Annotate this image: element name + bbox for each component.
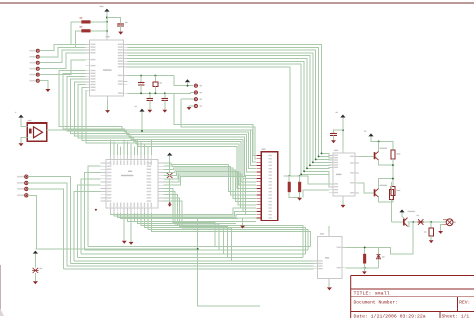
- wire R3 R4 bottoms join: [289, 192, 299, 198]
- diode D1 (DC): [377, 255, 381, 259]
- IC3 bottom pin stubs: [110, 208, 112, 213]
- wire R1 right to VCC net: [91, 21, 107, 23]
- wire Q1 base from IC5: [359, 156, 374, 158]
- junction dot rail at U-loop: [412, 221, 414, 223]
- wire R4 stem: [299, 176, 301, 182]
- wire VCC stem down to bus: [141, 112, 143, 131]
- wire JP1 pin1 to IC1 pin: [39, 45, 85, 51]
- IC1 left pin names: [91, 44, 96, 45]
- wire VCC stem: [187, 82, 189, 86]
- power VCC arrow near X2: [167, 153, 172, 156]
- wire bus IC1 to IC5 (8 nested corner lines): [127, 45, 333, 156]
- wire staircase IC3 right pins to connector rows: [164, 163, 256, 192]
- wire IC3 left pins to bottom loop bus: [88, 166, 101, 246]
- power VCC arrow above QG1: [18, 115, 23, 118]
- wire JP2 pin4 to crystal net: [28, 195, 37, 249]
- wire drops from bus into IC3 top pins: [110, 139, 112, 155]
- svg-text:TITLE: small: TITLE: small: [354, 291, 390, 297]
- junction dot on IC5 vcc line: [342, 129, 344, 131]
- IC4 bottom pin stub: [328, 279, 330, 283]
- junction dot below X2: [169, 202, 171, 204]
- wire R1 left leg down: [71, 22, 82, 45]
- wire bottom loop left segments: [88, 246, 92, 248]
- ground below IC4: [327, 287, 332, 290]
- IC4 left pin stubs: [313, 260, 317, 262]
- title block Sheet divider: [439, 311, 441, 318]
- wire J2 bottom row to ground: [243, 218, 257, 225]
- wire R5 bottom down: [392, 159, 394, 186]
- wire C4 to ground: [164, 101, 166, 110]
- capacitor C2 (vertical, between rails): [140, 76, 142, 82]
- resistor R5: [391, 150, 395, 159]
- junction dots on rail A: [140, 75, 142, 77]
- wire zener stems: [378, 247, 380, 254]
- wire IC3 right lower pins down to bottom loop: [164, 188, 216, 246]
- wire rail A from IC1 pin: [127, 75, 174, 77]
- wire R9 to ground: [430, 236, 432, 240]
- capacitor C4 at IC5: [334, 130, 343, 133]
- wire rail B from IC1 pin: [127, 92, 190, 94]
- wire bottom loop bus lower lines into IC4 left pins: [74, 260, 313, 262]
- ground below IC1: [105, 110, 110, 113]
- resistor R10: [364, 247, 366, 253]
- junction dot X1 net: [197, 248, 199, 250]
- wire Q3 base from R8: [392, 221, 404, 223]
- IC IC3 QFP box: [106, 160, 158, 208]
- IC1 right pin names: [118, 44, 123, 45]
- junction dot above R3: [288, 175, 290, 177]
- wire C3 to ground: [149, 101, 151, 110]
- wire JP1 pin2 to IC1 pin: [39, 47, 75, 57]
- connector JP2 pins (4 circle pads): [25, 175, 28, 178]
- power VCC arrow Q1 rail: [368, 133, 373, 136]
- QG1 inner square: [29, 129, 32, 134]
- junction dot on left bus: [95, 209, 97, 211]
- connector SV1 pin3: [194, 98, 197, 101]
- IC4 right pin stubs: [342, 246, 346, 248]
- power VCC arrow above IC5: [340, 115, 345, 118]
- junction dot VCC net upper: [106, 17, 108, 19]
- IC IC5 box: [333, 153, 355, 196]
- wire JP1 pin5 jog: [39, 60, 85, 75]
- ground below IC5: [341, 205, 346, 208]
- connector J2 pin stubs: [256, 155, 261, 157]
- connector SV1 pin4: [194, 104, 197, 107]
- power VCC arrow above IC1: [104, 9, 109, 12]
- wire bus over QFP to connector (staircase lines): [56, 130, 256, 162]
- crystal X2: [167, 173, 173, 178]
- wire VCC stem to IC1 top pin: [106, 12, 108, 37]
- junction dot at R1 right: [106, 21, 108, 23]
- IC5 left pin stubs: [329, 154, 333, 156]
- wire VCC rail to R5 top: [371, 136, 393, 149]
- ground below QG1: [19, 143, 24, 146]
- IC1 right pin stubs: [123, 44, 127, 46]
- wire pin4 to ground: [189, 106, 194, 107]
- IC IC1 box: [90, 40, 124, 96]
- IC5 pin names: [334, 155, 338, 156]
- IC3 right pin stubs: [158, 162, 164, 164]
- wire IC4 top pin up: [328, 226, 330, 233]
- IC4 top pin stub: [328, 233, 330, 237]
- power VCC arrow near bus: [139, 109, 144, 112]
- transistor Q2: [380, 185, 388, 186]
- svg-text:Date: 1/21/2006 03:29:22a: Date: 1/21/2006 03:29:22a: [354, 313, 426, 318]
- IC5 right pin stubs: [355, 156, 359, 158]
- wire Q1 collector up: [378, 142, 380, 152]
- resistor R8 hollow: [389, 190, 393, 200]
- IC3 top pin stubs: [110, 155, 112, 160]
- wire JP2 pin1 down to bottom loop: [28, 177, 71, 264]
- wire bus IC1 lower-left pins down (8 verticals, double jog): [59, 71, 122, 130]
- resistor R9: [430, 222, 432, 228]
- wire X1 top stem: [34, 254, 36, 268]
- IC1 left pin stubs: [86, 44, 90, 46]
- crystal X3 in series: [418, 219, 423, 225]
- wire IC5 bottom to ground: [342, 200, 344, 205]
- IC5 bottom pin stub: [342, 196, 344, 200]
- transistor Q3: [403, 219, 405, 226]
- wire long vertical from X1 net down right: [198, 219, 260, 306]
- wire IC3 bottom pin grounds: [123, 213, 125, 241]
- wire C4 to ground: [333, 136, 335, 141]
- wire QG1 to ground: [21, 138, 27, 144]
- wire pin3 left and down to bus: [181, 98, 194, 100]
- ground R10 above title block: [362, 271, 367, 274]
- svg-text:REV:: REV:: [459, 300, 470, 306]
- IC3 part name: [128, 171, 132, 172]
- capacitor C1 plates: [117, 23, 124, 25]
- wire Q3 emitter rail: [408, 221, 447, 223]
- wire JP2 pin3 down to bottom loop: [28, 189, 64, 269]
- ground at header: [187, 107, 192, 110]
- resistor R4: [298, 182, 301, 192]
- wire X2 bottom stem: [169, 178, 171, 203]
- oscillator QG1 box: [27, 123, 46, 141]
- junction dot VCC-bus: [141, 130, 143, 132]
- ground below C1: [118, 32, 123, 35]
- power VCC arrow Q3: [399, 209, 404, 212]
- wire IC4 bottom to ground: [328, 283, 330, 288]
- resistor R2: [81, 29, 90, 32]
- ground below C4: [331, 140, 336, 143]
- wire Q2 base from IC5: [359, 183, 374, 193]
- IC3 pin names: [110, 160, 111, 165]
- IC5 top pin stub: [342, 149, 344, 153]
- crystal X1: [32, 268, 38, 273]
- frame top border: [0, 2, 474, 4]
- junction dot rail at R9: [430, 221, 432, 223]
- capacitor C3 below rail B: [149, 93, 151, 98]
- wire VCC down to IC5 top: [342, 118, 344, 149]
- wire C1 bottom to ground: [120, 26, 122, 32]
- wire R2 right to VCC net: [91, 30, 107, 32]
- resistor R3: [288, 182, 291, 192]
- connector J2 pin numbers: [269, 155, 272, 156]
- wire IC3 bottom pins to lower bus: [111, 208, 256, 214]
- wire JP1 pin4 to IC1 pin: [39, 53, 85, 69]
- wire Q3 collector to VCC: [402, 212, 404, 217]
- ground below C3: [147, 110, 152, 113]
- wire IC4 right lower to zener: [346, 267, 379, 269]
- ground mark below X2: [168, 204, 172, 207]
- junction dots on bus-IC5 diagonal: [321, 152, 323, 154]
- wire Q2 collector to rail: [379, 179, 393, 189]
- wire R10 bottom to ground: [364, 264, 366, 272]
- connector SV1 pin2: [194, 91, 197, 94]
- title block row lines: [351, 288, 474, 290]
- connector J2 box: [261, 152, 277, 221]
- IC IC4 box: [317, 237, 342, 279]
- speaker LS1: [446, 219, 453, 226]
- ground below R4: [297, 198, 302, 201]
- wire X2 top stem: [169, 156, 171, 173]
- title block REV divider: [457, 297, 459, 312]
- ground below J2 area: [240, 226, 245, 229]
- resistor R1: [81, 20, 90, 23]
- IC1 part name label: [103, 69, 112, 70]
- junction dot Q1 collector rail: [378, 141, 380, 143]
- wire VCC to QG1: [21, 118, 27, 127]
- wire inner separated bus line (9th): [127, 67, 290, 176]
- ground below R9: [429, 240, 434, 243]
- connector JP1 pins (6 circle pads): [36, 49, 39, 52]
- wire IC1 bottom pin to ground: [107, 100, 109, 110]
- IC1 bottom pin stub: [107, 96, 109, 100]
- frame left border (partial, lower): [0, 265, 1, 310]
- svg-text:Document Number:: Document Number:: [354, 300, 398, 306]
- wire Q3 emitter to rail: [408, 222, 410, 226]
- wire crystal X1 net horizontal: [35, 248, 197, 250]
- wire speaker minus to ground: [441, 225, 443, 231]
- wire JP2 pin2 down to bottom loop: [28, 183, 67, 266]
- power VCC arrow at header: [185, 79, 190, 82]
- connector SV1 pin1: [194, 84, 197, 87]
- ground below JP1: [45, 89, 50, 92]
- frame bottom-left corner mark: [0, 308, 4, 316]
- wire U-loop from IC4 right pin: [342, 222, 413, 254]
- ground below C4: [162, 110, 167, 113]
- wire R2 left leg down: [76, 31, 82, 47]
- IC1 top pin stub: [106, 36, 108, 40]
- wire R8 stems: [391, 182, 393, 190]
- resistor R6: [391, 186, 395, 195]
- ground below X1: [33, 281, 38, 284]
- IC3 left pin stubs: [101, 162, 107, 164]
- wire IC5 lower-left feeds: [284, 176, 330, 184]
- junction dot R10 bottom: [364, 267, 366, 269]
- wire QG1 clock output: [47, 129, 56, 131]
- transistor Q1: [380, 148, 388, 149]
- wire JP1 pin6 to ground: [39, 81, 48, 89]
- resonator Q4 (square, between rails): [154, 76, 156, 82]
- wire pin2 left to rail B: [191, 92, 195, 95]
- wire rail A elbow to VCC and header: [174, 76, 193, 86]
- junction dot at header vcc: [187, 85, 189, 87]
- wire Q2 emitter down: [379, 197, 393, 202]
- wire R6 bottom: [392, 196, 394, 203]
- junction dot Q2 collector: [392, 178, 394, 180]
- wire VCC branch to C1: [107, 18, 121, 23]
- wire R3 stem: [288, 176, 290, 182]
- junction dot above R4: [299, 175, 301, 177]
- wire Q1 emitter to R5 bottom net: [379, 160, 393, 165]
- wire X1 bottom stem: [34, 273, 36, 281]
- wire JP1 pin3 to IC1 pin: [39, 50, 85, 63]
- wire bottom loop bus upper lines (turn up at right): [88, 246, 311, 248]
- QG1 triangle: [34, 127, 43, 138]
- junction dot emitter net: [392, 164, 394, 166]
- junction dot at R2 right: [106, 30, 108, 32]
- junction dots on rail B: [140, 92, 142, 94]
- title block outer box: [351, 276, 474, 318]
- ground below speaker: [438, 231, 443, 234]
- capacitor C4 below rail B: [164, 93, 166, 98]
- svg-text:Sheet: 1/1: Sheet: 1/1: [442, 313, 470, 318]
- power VCC arrow at X1: [33, 251, 38, 254]
